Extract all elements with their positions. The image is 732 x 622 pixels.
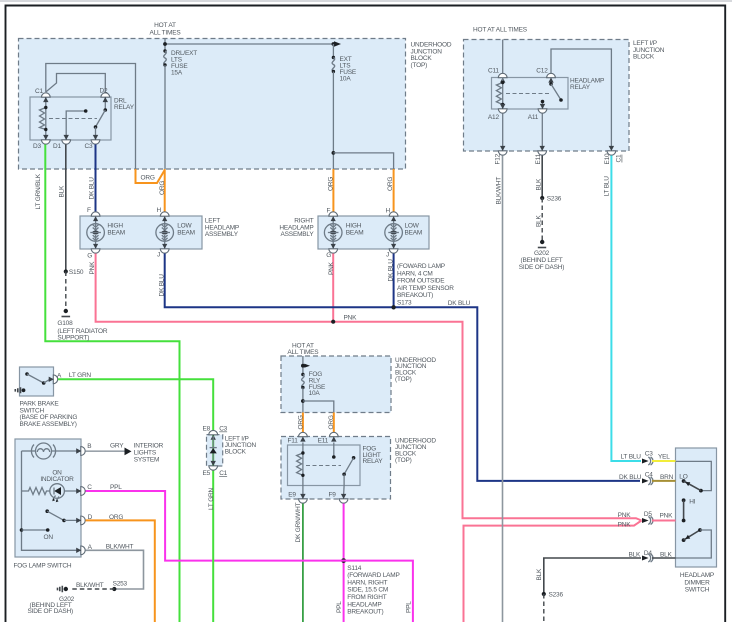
- label S236 bottom: [549, 591, 564, 598]
- DRL relay C1-D2 inner loop wire: [46, 74, 106, 93]
- wire PNK right lamp G drop: [331, 254, 335, 324]
- svg-text:BEAM: BEAM: [405, 229, 423, 236]
- svg-text:(TOP): (TOP): [395, 376, 412, 383]
- label PPL: [110, 484, 122, 491]
- labels at dimmer D4: [629, 550, 673, 558]
- DRL relay C1 outer loop wire: [46, 64, 136, 170]
- headlamp relay pin C11: [498, 73, 507, 82]
- svg-text:S114: S114: [347, 565, 361, 572]
- svg-text:PPL: PPL: [406, 601, 413, 613]
- label PNK at splice: [344, 314, 358, 321]
- svg-text:HEADLAMP: HEADLAMP: [347, 601, 381, 608]
- svg-text:15A: 15A: [171, 69, 183, 76]
- splice S114: [341, 558, 346, 563]
- junction block pin F12: [498, 146, 507, 155]
- svg-text:ASSEMBLY: ASSEMBLY: [281, 231, 315, 238]
- svg-text:LIGHTS: LIGHTS: [134, 449, 157, 456]
- labels fog switch pins: [87, 443, 92, 551]
- wire LT GRN park brake A to diode block and down: [58, 379, 213, 622]
- svg-text:BEAM: BEAM: [107, 229, 125, 236]
- fuse EXT LTS 10A: [332, 44, 335, 169]
- label S150: [69, 269, 84, 276]
- label S114 note: [347, 565, 399, 616]
- wire PPL fog switch C to S114 branch right: [86, 491, 413, 622]
- svg-text:ORG: ORG: [109, 514, 123, 521]
- fog relay mech link dashed: [306, 465, 341, 467]
- svg-text:BRAKE ASSEMBLY): BRAKE ASSEMBLY): [20, 421, 77, 428]
- DRL relay pin D1: [62, 135, 71, 144]
- label A park brake: [57, 372, 62, 379]
- wire BLK dashed S236 to G202: [541, 198, 543, 240]
- label LT GRN/BLK rotated: [35, 173, 42, 209]
- left low beam bulb: [156, 216, 174, 249]
- svg-text:ORG: ORG: [141, 175, 155, 182]
- labels at dimmer D5: [618, 511, 674, 528]
- label G202 bottom: [28, 596, 75, 615]
- svg-text:D: D: [88, 514, 93, 521]
- svg-text:BLK: BLK: [660, 551, 673, 558]
- label LOW BEAM right: [405, 223, 423, 237]
- left I/P junction block dashed box B: [464, 40, 630, 152]
- wire BRN C4 to dimmer: [652, 480, 676, 482]
- wire BLK from D1 to S150: [65, 145, 67, 272]
- fog switch ON contact: [20, 528, 50, 532]
- label PNK rotated left G: [89, 261, 96, 275]
- svg-text:ALL TIMES: ALL TIMES: [149, 30, 181, 37]
- svg-text:BLK: BLK: [629, 551, 642, 558]
- svg-text:SWITCH: SWITCH: [685, 587, 710, 594]
- right low beam bulb: [385, 216, 403, 249]
- label LEFT I/P JUNCTION BLOCK: [633, 40, 665, 60]
- wire ORG fog E11: [333, 413, 335, 433]
- label LEFT I/P JUNCTION BLOCK diode: [225, 436, 257, 456]
- svg-text:D2: D2: [100, 88, 108, 95]
- svg-text:S236: S236: [547, 196, 562, 203]
- svg-text:FROM RIGHT: FROM RIGHT: [347, 594, 386, 601]
- label LOW BEAM left: [177, 223, 195, 237]
- wire LT GRN/BLK from D3: [45, 145, 179, 622]
- label PARK BRAKE SWITCH: [20, 401, 78, 428]
- svg-text:S236: S236: [549, 591, 564, 598]
- svg-text:ORG: ORG: [328, 415, 335, 429]
- svg-text:LT BLU: LT BLU: [621, 453, 642, 460]
- labels F H left lamp: [87, 207, 162, 214]
- wire PNK D5 to dimmer: [652, 520, 676, 522]
- svg-text:ASSEMBLY: ASSEMBLY: [205, 231, 239, 238]
- labels E5 C1 diode block: [203, 470, 228, 477]
- fog box pin F9: [339, 494, 348, 503]
- svg-text:HI: HI: [689, 498, 695, 505]
- label S173 note: [397, 263, 454, 307]
- fog switch pin A: [76, 546, 85, 555]
- svg-text:E11: E11: [535, 153, 542, 164]
- svg-text:(TOP): (TOP): [395, 457, 412, 464]
- label ORG fog switch: [109, 514, 123, 521]
- underhood junction block (top) dashed box D (fog relay): [281, 437, 391, 500]
- svg-text:D5: D5: [644, 511, 652, 518]
- label HIGH BEAM left: [107, 223, 125, 237]
- dimmer switch HI contact: [682, 498, 686, 522]
- svg-text:PNK: PNK: [660, 513, 674, 520]
- right lamp pin J: [389, 249, 398, 253]
- label underhood junction block A: [411, 41, 452, 69]
- label INTERIOR LIGHTS SYSTEM: [134, 443, 164, 464]
- underhood junction block (top) dashed box A: [19, 39, 406, 170]
- labels C11 C12: [488, 67, 548, 74]
- labels E8 C3 diode block: [203, 426, 228, 433]
- svg-text:DK BLU: DK BLU: [89, 177, 96, 200]
- DRL relay box: [30, 97, 111, 140]
- label BLK/WHT rotated F12: [495, 177, 502, 205]
- svg-text:DK BLU: DK BLU: [388, 259, 395, 282]
- svg-text:LT BLU: LT BLU: [604, 176, 611, 197]
- svg-text:S150: S150: [69, 269, 84, 276]
- svg-text:(FORWARD LAMP: (FORWARD LAMP: [347, 572, 399, 579]
- fog light relay box: [288, 445, 361, 486]
- wire BLK/WHT F12 down: [502, 156, 504, 622]
- headlamp relay switch blade: [549, 82, 563, 102]
- labels F H right lamp: [327, 208, 391, 215]
- label BLK rotated E11: [535, 178, 542, 191]
- svg-text:BLK: BLK: [58, 185, 65, 198]
- fog switch pin D: [76, 516, 85, 525]
- svg-text:ORG: ORG: [159, 181, 166, 195]
- svg-text:SYSTEM: SYSTEM: [134, 456, 160, 463]
- wire ORG fog F11: [302, 413, 304, 433]
- wire ORG left lamp H feed: [164, 169, 166, 212]
- svg-text:HARN, RIGHT: HARN, RIGHT: [347, 579, 387, 586]
- svg-text:S253: S253: [113, 581, 128, 588]
- svg-text:E9: E9: [288, 491, 296, 498]
- label RIGHT HEADLAMP ASSEMBLY: [279, 218, 314, 239]
- svg-text:F11: F11: [288, 438, 299, 445]
- wire DK BLU C3 to left lamp F: [95, 145, 97, 212]
- dimmer switch LO blade: [682, 479, 701, 491]
- label C1: [35, 88, 43, 95]
- label D2: [100, 88, 108, 95]
- wire PNK left lamp G to pink bus: [96, 254, 642, 521]
- DRL relay pin D3: [41, 135, 50, 144]
- svg-text:PNK: PNK: [618, 512, 632, 519]
- svg-text:E10: E10: [604, 153, 611, 165]
- left lamp pin G: [91, 249, 100, 253]
- label HOT AT ALL TIMES fog: [287, 342, 319, 356]
- connector C4 chevron: [642, 477, 653, 485]
- label BLK/WHT dashed: [76, 582, 104, 589]
- label LT GRN: [69, 372, 92, 379]
- fog switch internal bus: [22, 451, 82, 550]
- DRL relay switch blade D2-C3: [94, 97, 107, 140]
- underhood junction block (top) dashed box C (fog fuse): [281, 356, 391, 413]
- connector D5 chevron: [642, 517, 653, 525]
- svg-text:D1: D1: [53, 143, 61, 150]
- svg-text:G108: G108: [57, 320, 73, 327]
- svg-text:HARN, 4 CM: HARN, 4 CM: [397, 270, 433, 277]
- fog fuse feed wire: [301, 356, 310, 374]
- label BLK/WHT fog switch: [106, 543, 134, 550]
- svg-text:C: C: [87, 484, 92, 491]
- right high beam bulb: [324, 216, 342, 249]
- label underhood junction block C: [395, 357, 436, 383]
- wire ORG fog switch D down: [86, 520, 155, 622]
- labels F11 E11: [288, 438, 329, 445]
- label ON INDICATOR: [40, 470, 74, 484]
- svg-text:F9: F9: [329, 491, 337, 498]
- svg-text:PNK: PNK: [328, 261, 335, 275]
- svg-text:AIR TEMP SENSOR: AIR TEMP SENSOR: [397, 285, 454, 292]
- park brake pin A: [49, 375, 58, 384]
- ground G108: [62, 309, 71, 317]
- headlamp relay C11 feed wire: [502, 40, 504, 74]
- svg-text:A11: A11: [528, 114, 539, 121]
- svg-text:PNK: PNK: [89, 261, 96, 275]
- labels F12 E11 E10 C1 rotated: [494, 153, 622, 165]
- svg-text:GRY: GRY: [110, 443, 124, 450]
- headlamp relay box: [492, 78, 569, 110]
- wire DK BLU right lamp J drop / splice S173: [391, 254, 395, 310]
- svg-text:BLK/WHT: BLK/WHT: [495, 177, 502, 205]
- svg-text:ORG: ORG: [327, 177, 334, 191]
- DRL relay coil: [40, 97, 48, 140]
- labels A12 A11: [488, 114, 539, 121]
- hot at all times bus (top left): [163, 39, 341, 51]
- fog lamp switch box: [15, 439, 81, 557]
- svg-text:ON: ON: [44, 534, 54, 541]
- DRL relay D1 contact: [66, 109, 87, 140]
- wire ORG jog from DRL relay to left lamp H: [136, 169, 165, 183]
- svg-text:ORG: ORG: [387, 177, 394, 191]
- svg-text:PNK: PNK: [344, 314, 358, 321]
- svg-text:SIDE OF DASH): SIDE OF DASH): [28, 608, 73, 615]
- label HEADLAMP RELAY: [570, 77, 604, 91]
- wire DK BLU left lamp J to dimmer C4: [165, 254, 640, 481]
- left high beam bulb: [87, 216, 105, 249]
- fog box pin E9: [299, 494, 308, 503]
- wire BLK dashed S236 to bottom edge: [543, 594, 545, 622]
- park brake ground: [15, 387, 25, 393]
- svg-text:C12: C12: [536, 67, 548, 74]
- svg-text:10A: 10A: [340, 76, 352, 83]
- label ON rocker: [44, 534, 54, 541]
- wire GRY fog switch B to interior lights: [86, 448, 132, 456]
- svg-text:HEADLAMP: HEADLAMP: [680, 572, 714, 579]
- svg-text:LO: LO: [679, 473, 687, 480]
- svg-text:SIDE, 15.5 CM: SIDE, 15.5 CM: [347, 587, 388, 594]
- right headlamp assembly box: [318, 216, 429, 249]
- right lamp pin F: [329, 212, 338, 216]
- svg-text:(FOWARD LAMP: (FOWARD LAMP: [397, 263, 445, 270]
- svg-text:HOT AT: HOT AT: [154, 22, 176, 29]
- label FOG RLY FUSE 10A: [309, 371, 326, 397]
- svg-text:E5: E5: [203, 470, 211, 477]
- left lamp pin J: [160, 249, 169, 253]
- labels D3 D1 C3: [33, 143, 93, 150]
- wire PPL F9 to S114 and down: [343, 504, 345, 622]
- label fuse DRL/EXT: [171, 50, 197, 77]
- fog switch rocker: [45, 509, 81, 522]
- label DK BLU rotated left J: [159, 274, 166, 297]
- label PNK rotated right G: [328, 261, 335, 275]
- fog fuse branch to E11: [301, 399, 334, 412]
- wire BLK E11 to S236: [540, 156, 544, 201]
- connector C3 chevron: [642, 457, 653, 465]
- svg-text:RELAY: RELAY: [570, 84, 591, 91]
- svg-text:S173: S173: [397, 300, 412, 307]
- label ORG rotated left H: [159, 181, 166, 195]
- svg-text:C11: C11: [488, 67, 499, 74]
- svg-text:PPL: PPL: [110, 484, 122, 491]
- svg-text:LT GRN: LT GRN: [69, 372, 92, 379]
- label HOT AT ALL TIMES right: [473, 27, 528, 34]
- label fuse EXT: [340, 56, 357, 83]
- diode (park brake): [210, 436, 217, 465]
- svg-text:(TOP): (TOP): [411, 62, 428, 69]
- svg-text:BLK/WHT: BLK/WHT: [106, 543, 134, 550]
- fog switch ON indicator LED: [50, 484, 81, 503]
- wire ORG right lamp H feed: [393, 169, 395, 212]
- svg-text:BEAM: BEAM: [346, 229, 364, 236]
- headlamp relay coil: [496, 78, 504, 110]
- splice S150: [64, 269, 68, 273]
- park brake switch box: [20, 367, 54, 396]
- svg-text:RELAY: RELAY: [114, 104, 135, 111]
- label HIGH BEAM right: [346, 223, 364, 237]
- fog relay coil: [297, 443, 305, 486]
- svg-text:PPL: PPL: [336, 601, 343, 613]
- svg-text:G: G: [326, 252, 331, 259]
- label G202 top: [519, 250, 564, 271]
- label DK BLU near dimmer run: [448, 300, 471, 307]
- svg-text:J: J: [157, 252, 160, 259]
- junction block pin E11: [538, 146, 547, 155]
- fog switch pin C: [76, 487, 85, 496]
- svg-text:BLK/WHT: BLK/WHT: [76, 582, 104, 589]
- label BLK rotated dashed: [535, 214, 542, 227]
- wire A11 to E11: [541, 114, 543, 147]
- fog relay switch blade: [342, 456, 355, 486]
- park brake switch internals: [25, 372, 49, 385]
- label GRY: [110, 443, 124, 450]
- svg-text:FOG LAMP SWITCH: FOG LAMP SWITCH: [14, 562, 72, 569]
- left headlamp assembly box: [80, 216, 202, 249]
- svg-text:BRN: BRN: [660, 474, 674, 481]
- labels at dimmer C3: [621, 451, 671, 461]
- wire LT BLU E10 to dimmer C3: [611, 156, 641, 462]
- svg-text:LT GRN: LT GRN: [208, 487, 215, 510]
- svg-text:C4: C4: [645, 471, 653, 478]
- wire BLK dashed S150 to G108: [65, 272, 67, 310]
- label LEFT HEADLAMP ASSEMBLY: [205, 218, 239, 239]
- svg-text:C1: C1: [219, 470, 227, 477]
- svg-text:BLK: BLK: [535, 178, 542, 191]
- fog switch ON indicator resistor: [22, 488, 50, 495]
- svg-text:B: B: [87, 443, 91, 450]
- left lamp pin H: [160, 212, 169, 216]
- left lamp pin F: [91, 212, 100, 216]
- labels ORG rotated fog: [297, 415, 335, 429]
- headlamp relay A11 contact: [541, 100, 545, 109]
- labels PPL rotated: [336, 601, 413, 613]
- svg-text:LT GRN/BLK: LT GRN/BLK: [35, 173, 42, 209]
- fog box pin F11: [299, 432, 308, 441]
- connector D4 chevron: [642, 554, 653, 562]
- dimmer switch lower loop: [676, 530, 712, 558]
- DRL relay pin C3: [91, 135, 100, 144]
- label DK BLU rotated C3: [89, 177, 96, 200]
- svg-text:BLK: BLK: [535, 214, 542, 227]
- svg-text:BREAKOUT): BREAKOUT): [347, 609, 383, 616]
- label S253: [113, 581, 128, 588]
- svg-text:DK BLU: DK BLU: [159, 274, 166, 297]
- svg-text:FROM OUTSIDE: FROM OUTSIDE: [397, 278, 445, 285]
- wire BLK D4 to dimmer: [652, 557, 676, 559]
- label BLK rotated D4 drop: [536, 568, 543, 581]
- svg-text:F: F: [327, 208, 331, 215]
- label BLK rotated D1: [58, 185, 65, 198]
- svg-text:ORG: ORG: [297, 415, 304, 429]
- label LT BLU rotated E10: [604, 176, 611, 197]
- label DRL RELAY: [114, 98, 135, 112]
- svg-text:SUPPORT): SUPPORT): [57, 335, 89, 342]
- wire A12 to F12: [502, 114, 504, 147]
- diode block pin E8: [209, 430, 218, 439]
- svg-text:F12: F12: [494, 153, 501, 164]
- label LO: [679, 473, 687, 480]
- label HI: [689, 498, 695, 505]
- fog switch lamp: [22, 443, 82, 459]
- svg-text:J: J: [386, 252, 389, 259]
- headlamp relay mech link dashed: [506, 93, 549, 95]
- svg-text:PNK: PNK: [618, 522, 632, 529]
- svg-text:DIMMER: DIMMER: [684, 579, 710, 586]
- label DK BLU rotated right J: [388, 259, 395, 282]
- wire ext fuse branch to right lamp H: [332, 151, 394, 169]
- headlamp relay pin C12: [547, 73, 556, 82]
- svg-text:G: G: [87, 252, 92, 259]
- fog relay E11 contact: [332, 443, 336, 459]
- left I/P junction block dashed box E (park brake diode): [207, 435, 223, 466]
- svg-text:INDICATOR: INDICATOR: [40, 476, 74, 483]
- fuse FOG RLY 10A: [301, 373, 304, 413]
- label FOG LAMP SWITCH: [14, 562, 72, 569]
- labels E9 F9: [288, 491, 336, 498]
- label underhood junction block D: [395, 438, 436, 465]
- label S236 top: [547, 196, 562, 203]
- DRL relay pin D2: [101, 93, 110, 102]
- svg-text:BLK: BLK: [536, 568, 543, 581]
- svg-text:E8: E8: [203, 426, 211, 433]
- ground G202 (behind left side of dash): [538, 240, 546, 248]
- right lamp pin G: [329, 249, 338, 253]
- label FOG LIGHT RELAY: [363, 445, 384, 465]
- svg-text:F: F: [87, 207, 91, 214]
- fuse DRL/EXT LTS 15A: [163, 49, 166, 169]
- svg-text:H: H: [157, 207, 162, 214]
- svg-text:BREAKOUT): BREAKOUT): [397, 292, 433, 299]
- diode block pin E5: [209, 461, 218, 470]
- labels G J right lamp: [326, 252, 389, 259]
- label HOT AT ALL TIMES top left: [149, 22, 181, 36]
- headlamp relay pin A12: [498, 104, 507, 113]
- svg-text:E11: E11: [318, 438, 329, 445]
- wire ORG right lamp F feed: [332, 169, 334, 212]
- dimmer switch lower blade: [682, 528, 702, 542]
- headlamp relay pin A11: [538, 104, 547, 113]
- splice S236 bottom: [542, 592, 546, 596]
- wire BLK/WHT fog switch A to S253: [86, 550, 144, 589]
- svg-text:ALL TIMES: ALL TIMES: [287, 349, 319, 356]
- svg-text:C1: C1: [35, 88, 43, 95]
